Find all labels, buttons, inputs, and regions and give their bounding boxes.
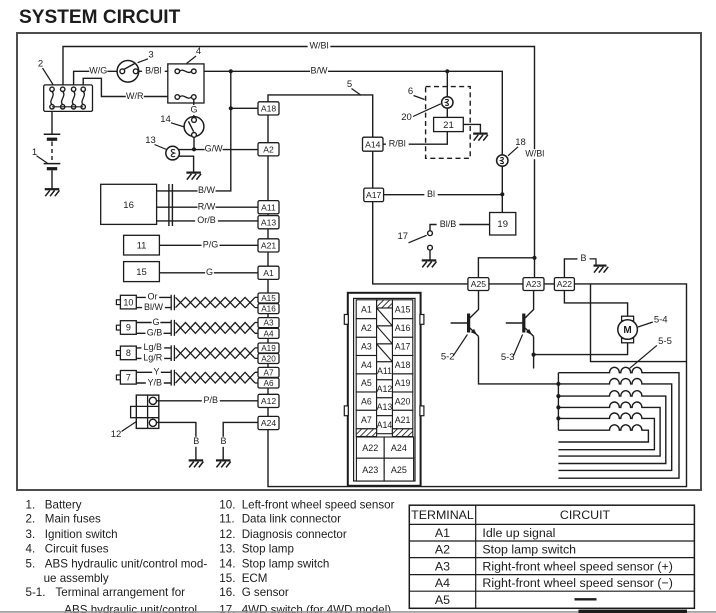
svg-text:Y/B: Y/B: [148, 377, 163, 387]
svg-text:11.: 11.: [219, 512, 234, 525]
svg-text:A20: A20: [395, 396, 411, 406]
svg-text:A12: A12: [261, 396, 277, 406]
wire (B/W feed to A18): [229, 106, 258, 110]
ECM terminal A18: [258, 102, 279, 115]
svg-text:A14: A14: [377, 420, 393, 430]
svg-text:5-4: 5-4: [654, 315, 668, 326]
svg-text:1.: 1.: [26, 498, 36, 511]
svg-text:15.: 15.: [219, 572, 235, 585]
wire B (diagnosis connector ground): [157, 422, 201, 459]
svg-text:Or/B: Or/B: [197, 215, 216, 225]
svg-text:B/W: B/W: [311, 66, 329, 76]
svg-text:A21: A21: [261, 240, 277, 250]
wire W/G: [74, 65, 117, 85]
warning lamp 20: [401, 71, 453, 123]
svg-text:A3: A3: [361, 342, 372, 352]
svg-text:10.: 10.: [219, 498, 235, 511]
stop lamp switch 14: [160, 114, 204, 149]
svg-text:A14: A14: [365, 139, 381, 149]
svg-text:7: 7: [126, 373, 131, 383]
ECM terminal A19: [258, 343, 279, 353]
svg-text:W/Bl: W/Bl: [525, 149, 544, 159]
svg-text:8: 8: [126, 348, 131, 358]
svg-text:Data link connector: Data link connector: [242, 512, 341, 525]
svg-text:4.: 4.: [26, 542, 36, 555]
transistor 5-3: [501, 291, 536, 369]
ECM terminal A16: [258, 304, 279, 314]
svg-text:Circuit fuses: Circuit fuses: [45, 542, 109, 555]
svg-text:A19: A19: [261, 344, 276, 353]
svg-text:A1: A1: [361, 304, 372, 314]
diagnosis connector 12: [111, 395, 159, 440]
wire B (A22 ground): [564, 253, 596, 277]
svg-text:A22: A22: [557, 279, 573, 289]
svg-text:2: 2: [38, 58, 43, 69]
terminal A23: [523, 278, 544, 291]
ABS warning lamp relay 6 (dashed): [408, 86, 470, 158]
svg-text:20: 20: [401, 112, 412, 123]
svg-text:Ignition switch: Ignition switch: [45, 528, 118, 541]
svg-text:Bl/B: Bl/B: [440, 219, 457, 229]
svg-text:ABS hydraulic unit/control mod: ABS hydraulic unit/control mod-: [45, 557, 208, 570]
legend list: [26, 498, 395, 613]
svg-text:R/W: R/W: [198, 202, 216, 212]
transistor 5-2: [441, 291, 559, 384]
wire Bl/B: [430, 219, 490, 231]
ECM terminal A3: [258, 318, 279, 328]
svg-text:5.: 5.: [26, 557, 36, 570]
svg-text:A4: A4: [435, 576, 450, 590]
svg-text:9: 9: [126, 323, 131, 333]
svg-text:5-3: 5-3: [501, 352, 515, 363]
svg-text:Idle up signal: Idle up signal: [482, 526, 555, 540]
svg-text:A3: A3: [263, 319, 273, 328]
svg-text:P/B: P/B: [204, 395, 219, 405]
svg-text:A5: A5: [361, 378, 372, 388]
svg-text:11: 11: [137, 241, 147, 252]
svg-text:M: M: [623, 325, 631, 336]
svg-text:A24: A24: [391, 443, 407, 453]
svg-text:15: 15: [136, 267, 147, 278]
svg-text:A16: A16: [395, 323, 411, 333]
svg-text:A13: A13: [377, 402, 393, 412]
warning lamp 18: [497, 137, 526, 166]
svg-text:B: B: [193, 436, 199, 446]
svg-text:A7: A7: [263, 368, 273, 377]
svg-text:W/Bl: W/Bl: [310, 41, 329, 51]
wire W/R: [83, 78, 168, 101]
wire W/Bl (battery feed rail): [63, 41, 546, 278]
ECM terminal A7: [258, 367, 279, 377]
svg-text:2.: 2.: [26, 512, 36, 525]
svg-text:G: G: [190, 104, 197, 114]
main fuses 2: [38, 58, 93, 111]
wire R/Bl: [383, 132, 447, 150]
svg-text:A23: A23: [526, 279, 542, 289]
svg-text:Lg/B: Lg/B: [144, 342, 163, 352]
wire 5 (A18 harness): [268, 79, 373, 137]
ground (battery): [45, 189, 60, 196]
svg-text:A21: A21: [395, 415, 411, 425]
svg-text:A2: A2: [263, 144, 274, 154]
svg-text:G sensor: G sensor: [242, 586, 289, 599]
ECM terminal A1: [258, 266, 279, 279]
ECM terminal A2: [258, 143, 279, 156]
svg-text:19: 19: [497, 219, 508, 230]
svg-text:A1: A1: [263, 268, 274, 278]
svg-text:16: 16: [123, 200, 134, 211]
svg-text:Stop lamp switch: Stop lamp switch: [482, 543, 576, 557]
svg-text:A19: A19: [395, 378, 411, 388]
wheel speed sensor 9: [116, 317, 258, 339]
wire R/W: [157, 202, 258, 213]
svg-text:A23: A23: [362, 465, 378, 475]
svg-text:G: G: [152, 317, 159, 327]
svg-text:A15: A15: [395, 304, 411, 314]
svg-text:A3: A3: [435, 559, 450, 573]
ECM terminal A4: [258, 328, 279, 338]
G sensor 16: [101, 184, 173, 226]
ground (B 2): [216, 460, 231, 467]
stop lamp 13: [145, 135, 193, 172]
ECM terminal A20: [258, 354, 279, 364]
svg-text:A18: A18: [261, 103, 277, 113]
ECM 15 / box 11: [124, 235, 160, 255]
wire B (A24 ground): [219, 422, 258, 459]
svg-text:B/W: B/W: [198, 185, 216, 195]
wheel speed sensor 10: [116, 292, 258, 313]
svg-text:A16: A16: [261, 305, 276, 314]
svg-text:CIRCUIT: CIRCUIT: [560, 508, 611, 522]
svg-text:A2: A2: [435, 543, 450, 557]
svg-text:A18: A18: [395, 360, 411, 370]
ECM terminal A6: [258, 378, 279, 388]
svg-text:A1: A1: [435, 526, 450, 540]
battery 1: [32, 111, 60, 188]
svg-text:ECM: ECM: [242, 572, 268, 585]
ECM terminal A14: [363, 137, 384, 151]
solenoid coils 5-5: [556, 336, 679, 478]
svg-text:Diagnosis connector: Diagnosis connector: [242, 528, 347, 541]
ignition switch 3: [117, 49, 154, 82]
svg-text:Bl: Bl: [427, 189, 435, 199]
wire (hydraulic unit inner feed): [591, 284, 687, 362]
svg-text:Y: Y: [153, 367, 159, 377]
ECM terminal A21: [258, 239, 279, 252]
wire P/G: [159, 240, 258, 251]
wire B/Bl: [139, 66, 168, 77]
wire Bl: [384, 189, 505, 200]
svg-text:A4: A4: [361, 360, 372, 370]
svg-text:A6: A6: [361, 396, 372, 406]
svg-text:A15: A15: [261, 294, 276, 303]
svg-text:A25: A25: [471, 279, 487, 289]
svg-text:14.: 14.: [219, 557, 235, 570]
svg-text:13.: 13.: [219, 542, 235, 555]
svg-text:A24: A24: [261, 418, 277, 428]
svg-text:A6: A6: [263, 379, 273, 388]
svg-text:21: 21: [443, 120, 454, 131]
svg-text:A12: A12: [377, 384, 393, 394]
terminal table: [409, 505, 694, 608]
svg-text:12.: 12.: [219, 528, 235, 541]
svg-text:P/G: P/G: [203, 240, 219, 250]
ground (B 1): [189, 460, 204, 467]
pump motor 5-4: [534, 291, 668, 355]
svg-text:4: 4: [196, 46, 201, 57]
relay box 19: [490, 194, 516, 235]
box 15 ECM: [124, 262, 160, 282]
svg-text:G/B: G/B: [147, 328, 163, 338]
svg-text:A4: A4: [263, 329, 273, 338]
svg-text:G: G: [206, 267, 213, 277]
4WD switch 17: [398, 231, 433, 260]
ECM terminal A15: [258, 293, 279, 303]
svg-text:A17: A17: [366, 190, 382, 200]
ECM terminal A17: [364, 188, 384, 202]
svg-text:14: 14: [160, 114, 171, 125]
svg-text:Right-front wheel speed sensor: Right-front wheel speed sensor (+): [482, 559, 672, 573]
svg-text:W/R: W/R: [126, 91, 144, 101]
svg-text:Battery: Battery: [45, 498, 82, 511]
svg-text:10: 10: [123, 297, 133, 307]
svg-text:Main fuses: Main fuses: [45, 512, 101, 525]
circuit fuses 4: [168, 46, 204, 103]
page divider (next section edge): [0, 610, 716, 613]
ground (stop lamp): [186, 173, 201, 180]
ECM terminal A13: [258, 216, 279, 229]
ground (A22): [594, 266, 609, 273]
lamp driver 21: [434, 117, 464, 131]
wire P/B: [157, 395, 259, 406]
wire G/W: [179, 144, 258, 155]
connector block 5-1 (terminal arrangement): [344, 293, 424, 486]
svg-text:12: 12: [111, 429, 122, 440]
wheel speed sensor 7: [116, 367, 258, 388]
svg-text:5: 5: [347, 79, 352, 90]
wire G (fuse to stop lamp switch): [190, 99, 199, 117]
ground (box 21): [463, 124, 488, 140]
svg-text:A17: A17: [395, 342, 411, 352]
svg-text:W/G: W/G: [89, 65, 107, 75]
svg-text:17: 17: [398, 231, 409, 242]
wheel speed sensor 8: [116, 342, 258, 363]
svg-text:A20: A20: [261, 354, 276, 363]
svg-text:A7: A7: [361, 415, 372, 425]
svg-text:Bl/W: Bl/W: [144, 302, 164, 312]
svg-text:Left-front wheel speed sensor: Left-front wheel speed sensor: [242, 498, 395, 511]
svg-text:Right-front wheel speed sensor: Right-front wheel speed sensor (−): [482, 576, 672, 590]
svg-text:B/Bl: B/Bl: [145, 66, 162, 76]
svg-text:6: 6: [408, 86, 413, 97]
svg-text:A5: A5: [435, 593, 450, 607]
svg-text:A25: A25: [391, 465, 407, 475]
svg-text:B: B: [580, 253, 586, 263]
svg-text:B: B: [220, 436, 226, 446]
ECM terminal bus: [268, 108, 687, 487]
svg-text:3: 3: [148, 49, 153, 60]
svg-text:A22: A22: [362, 443, 378, 453]
svg-text:A11: A11: [377, 366, 392, 376]
svg-text:R/Bl: R/Bl: [389, 139, 406, 149]
svg-text:Stop lamp: Stop lamp: [242, 542, 294, 555]
svg-text:Lg/R: Lg/R: [143, 353, 163, 363]
svg-text:1: 1: [32, 147, 37, 158]
svg-text:3.: 3.: [26, 528, 36, 541]
svg-text:5-2: 5-2: [441, 351, 455, 362]
svg-text:13: 13: [145, 135, 156, 146]
terminal A22: [554, 278, 574, 291]
svg-text:Terminal arrangement for: Terminal arrangement for: [56, 586, 186, 599]
svg-text:Stop lamp switch: Stop lamp switch: [242, 557, 330, 570]
svg-text:A13: A13: [261, 217, 277, 227]
svg-text:16.: 16.: [219, 586, 235, 599]
svg-text:SYSTEM CIRCUIT: SYSTEM CIRCUIT: [19, 7, 181, 28]
terminal A25: [468, 278, 489, 291]
svg-text:A2: A2: [361, 323, 372, 333]
wire Or/B: [157, 215, 258, 226]
ground (switch 17): [422, 260, 437, 267]
wire B/W (ignition feed): [196, 66, 502, 195]
ECM terminal A11: [258, 201, 279, 214]
wire G (ECM): [159, 267, 258, 278]
svg-text:5-1.: 5-1.: [26, 586, 46, 599]
ECM terminal A24: [258, 416, 279, 429]
svg-text:5-5: 5-5: [658, 336, 672, 347]
wire B/W (G sensor): [157, 71, 231, 196]
svg-text:G/W: G/W: [205, 144, 224, 154]
svg-text:A11: A11: [261, 202, 276, 212]
svg-text:18: 18: [515, 137, 526, 148]
svg-text:TERMINAL: TERMINAL: [411, 508, 474, 522]
svg-text:ue assembly: ue assembly: [44, 572, 109, 585]
ECM terminal A12: [258, 394, 279, 407]
svg-text:Or: Or: [148, 292, 158, 302]
